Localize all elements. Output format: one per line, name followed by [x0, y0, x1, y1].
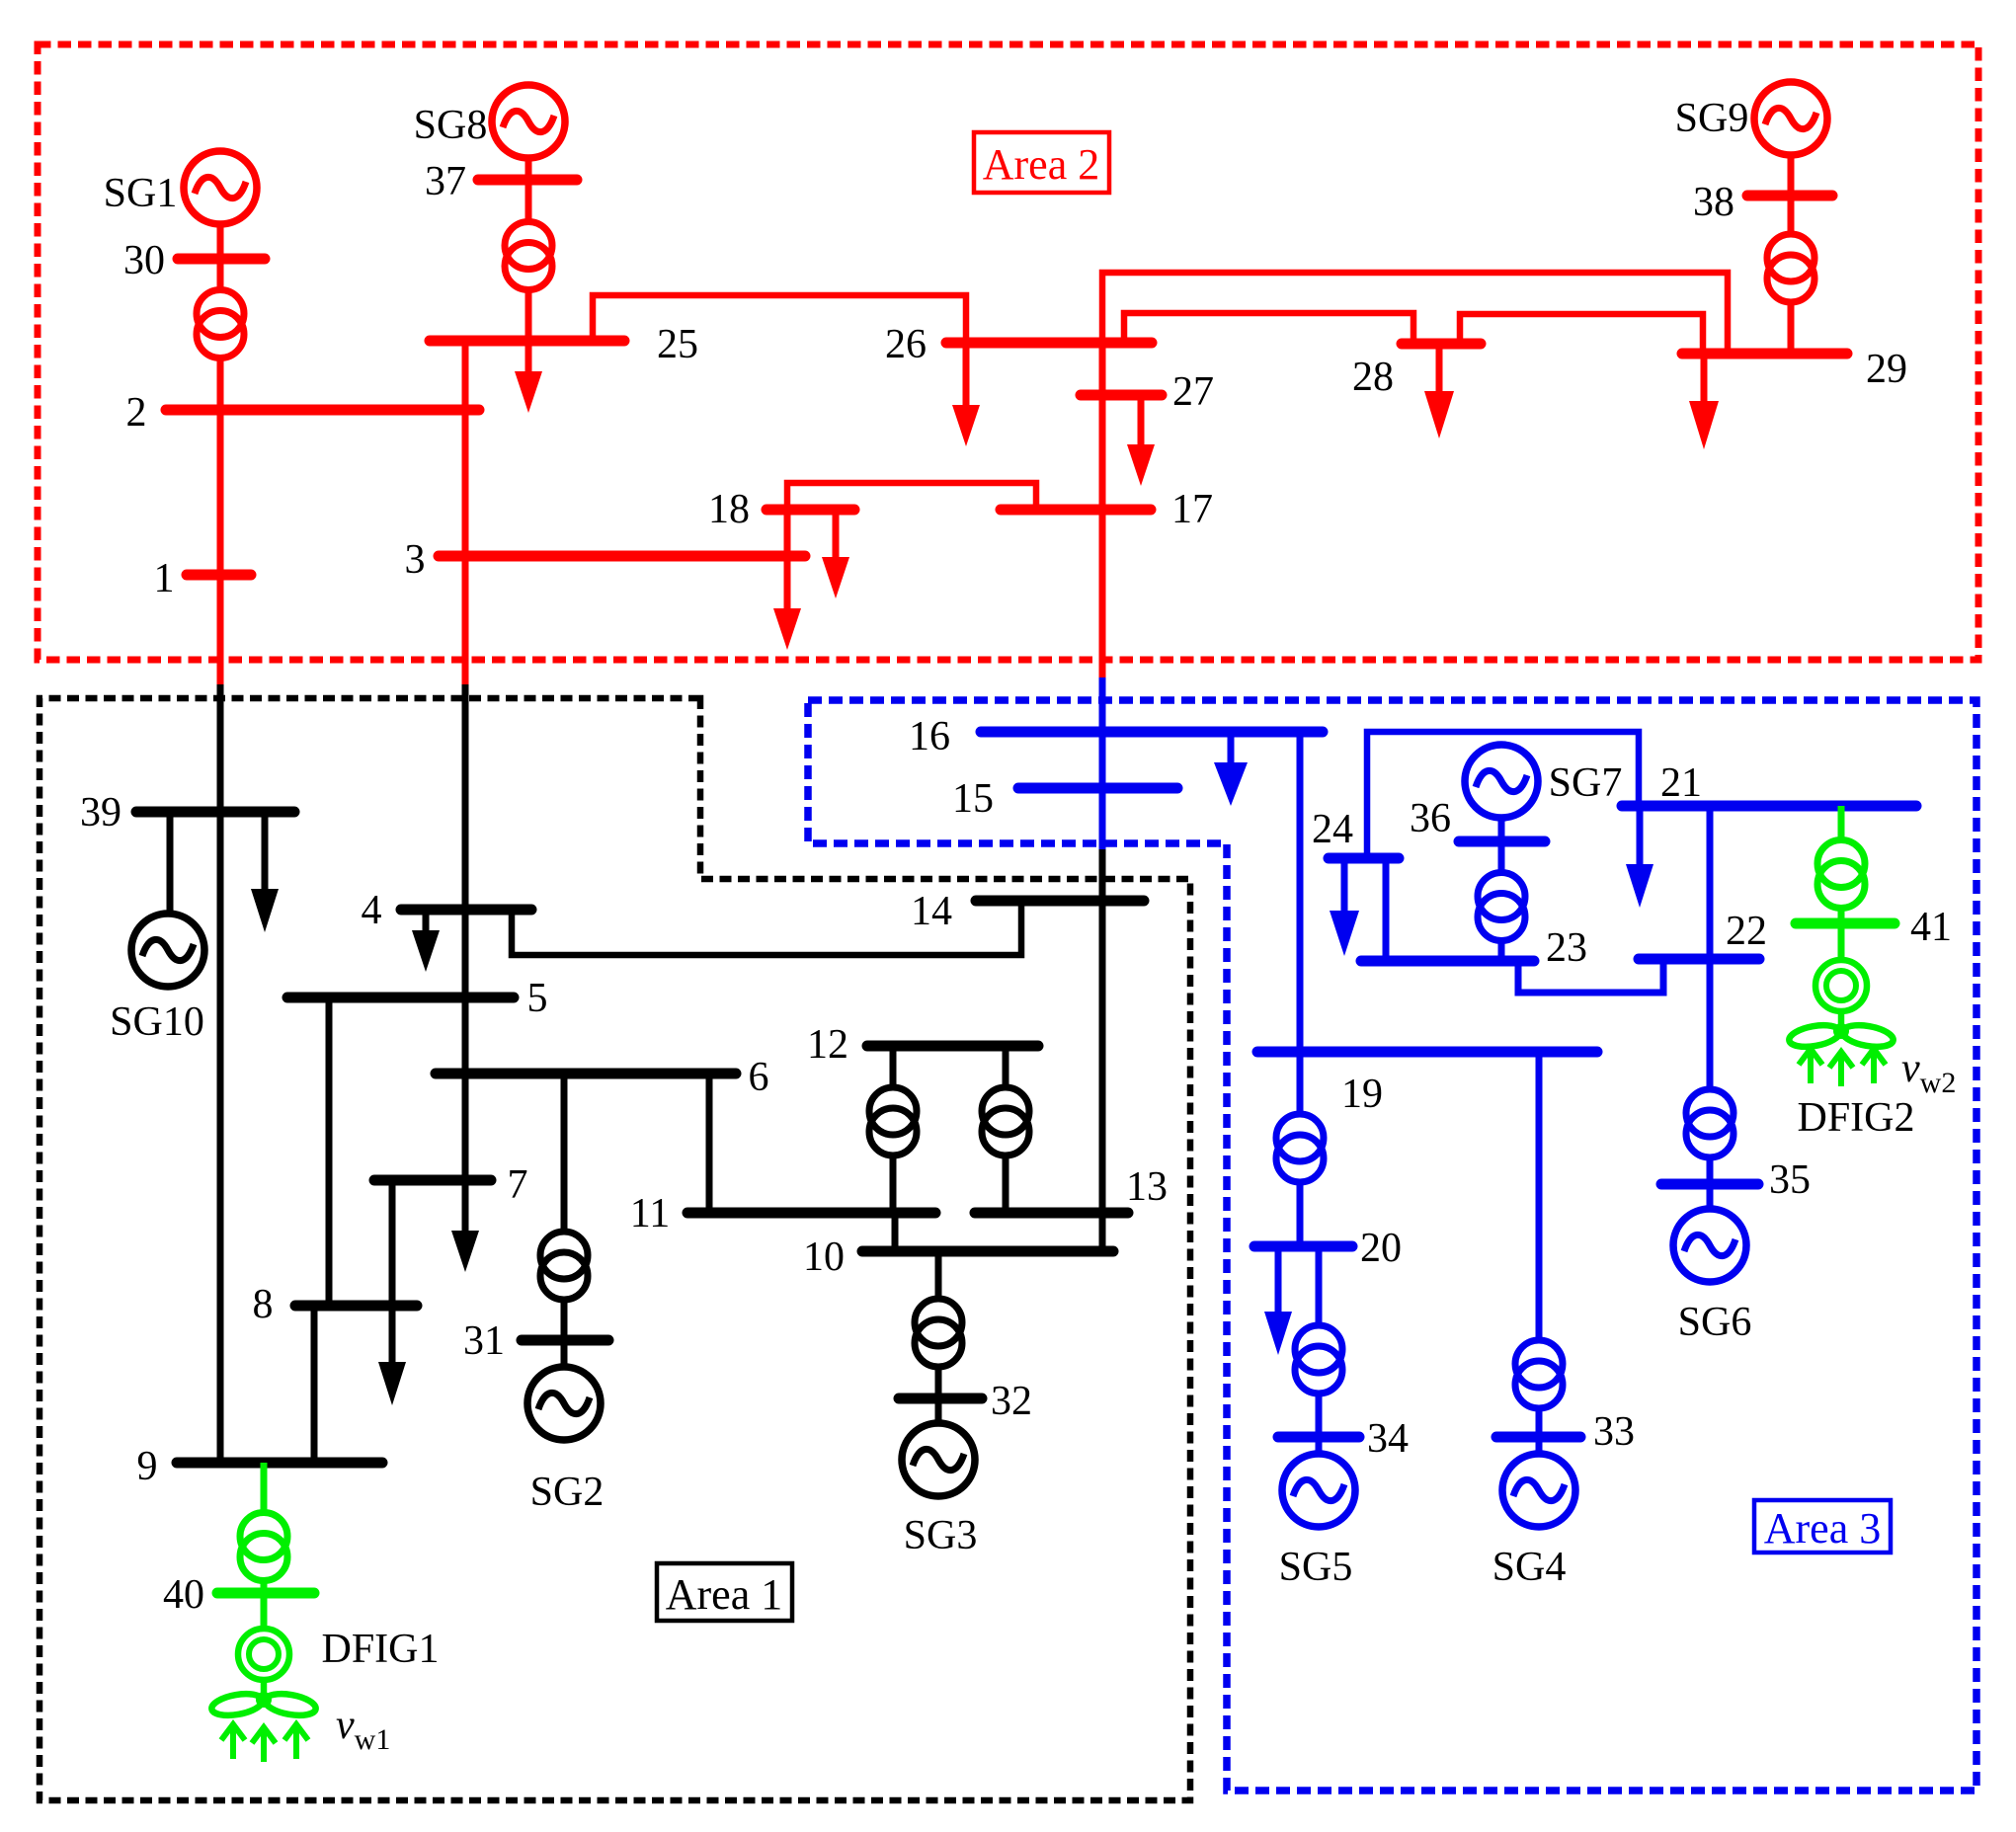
svg-text:34: 34	[1367, 1416, 1409, 1462]
transformer T-19-33 (SG4 step-up)	[1515, 1340, 1563, 1388]
svg-text:36: 36	[1410, 796, 1451, 841]
wire: line 16-19	[1297, 732, 1304, 1052]
wire: line 21-24	[1367, 732, 1639, 858]
wire: line 4-14	[512, 901, 1021, 955]
bus 36	[1459, 836, 1545, 847]
wire: line 17-16-15 blue portion of long tie	[1099, 677, 1106, 849]
svg-text:Area 3: Area 3	[1764, 1504, 1882, 1553]
load arrow at bus 16	[1228, 732, 1235, 764]
svg-text:14: 14	[911, 889, 952, 934]
svg-text:32: 32	[991, 1379, 1032, 1424]
svg-text:SG9: SG9	[1675, 96, 1749, 141]
wire: transformer to bus 13	[1003, 1155, 1009, 1213]
wire: bus 12 to transformer 12-11	[890, 1046, 897, 1087]
load arrow at bus 18	[833, 510, 840, 559]
transformer T-38-29 (SG9 step-up)	[1767, 234, 1814, 281]
svg-text:SG5: SG5	[1279, 1545, 1353, 1590]
svg-text:18: 18	[708, 487, 750, 532]
load arrow at bus 4	[423, 910, 430, 932]
wire: transformer to bus 33	[1536, 1408, 1543, 1437]
load arrow at bus 24	[1341, 858, 1348, 912]
svg-text:SG7: SG7	[1549, 760, 1623, 806]
bus 25	[430, 336, 624, 347]
wire: bus 19 to transformer 19-20	[1297, 1052, 1304, 1114]
svg-text:41: 41	[1910, 905, 1952, 950]
wire: transformer to bus 41	[1838, 909, 1845, 924]
svg-text:10: 10	[803, 1235, 845, 1280]
generator SG10	[131, 914, 204, 987]
bus 30	[178, 254, 265, 265]
wire: bus 33 lead to SG4	[1536, 1437, 1543, 1454]
bus 35	[1661, 1179, 1758, 1190]
wire: bus 34 lead to SG5	[1316, 1437, 1323, 1454]
load arrow at bus 26	[963, 343, 970, 407]
wire: line 17-18	[787, 483, 1036, 510]
bus 20	[1254, 1241, 1352, 1252]
generator SG5	[1282, 1454, 1355, 1527]
bus 39	[136, 807, 294, 818]
wire: bus 38 to transformer	[1788, 196, 1795, 234]
wind turbine blades DFIG1	[210, 1691, 265, 1719]
wire: transformer to bus 11	[890, 1155, 897, 1213]
transformer T-10-32 (SG3 step-up)	[915, 1299, 962, 1346]
generator SG6	[1673, 1209, 1746, 1282]
bus 22	[1639, 954, 1759, 965]
load arrow at bus 27	[1138, 395, 1145, 446]
wire: bus 12 to transformer 12-13	[1003, 1046, 1009, 1087]
wire: bus 21 to DFIG2 transformer	[1838, 806, 1845, 840]
wire: bus 32 lead to SG3	[935, 1398, 942, 1423]
bus 26	[946, 338, 1152, 349]
wire: bus 37 to transformer	[525, 180, 532, 222]
transformer T-21-41 (DFIG2)	[1817, 840, 1865, 888]
svg-text:1: 1	[154, 556, 175, 601]
svg-text:31: 31	[463, 1318, 505, 1364]
transformer T-6-31 (SG2 step-up)	[540, 1232, 588, 1279]
svg-text:5: 5	[527, 976, 548, 1021]
svg-text:38: 38	[1693, 180, 1734, 225]
svg-text:30: 30	[123, 238, 165, 283]
DFIG1 machine (double-ring generator)	[238, 1629, 289, 1680]
bus 16	[981, 727, 1323, 738]
bus 24	[1329, 853, 1399, 864]
load arrow at bus 3	[784, 556, 791, 610]
svg-text:3: 3	[405, 537, 426, 583]
wire: transformer to bus 29	[1788, 302, 1795, 354]
bus 9	[177, 1458, 382, 1469]
wire: lines 14-13-10 vertical (black part of long tie)	[1099, 849, 1106, 1251]
svg-text:20: 20	[1360, 1226, 1402, 1271]
svg-text:SG2: SG2	[530, 1470, 605, 1515]
svg-text:13: 13	[1126, 1164, 1168, 1210]
wire: transformer to bus 20	[1297, 1182, 1304, 1246]
wire: line 26-29 (upper long tie)	[1102, 273, 1728, 354]
load arrow at bus 29	[1701, 354, 1708, 403]
bus 2	[166, 405, 479, 416]
wire: SG7 lead to bus 36	[1498, 818, 1505, 841]
wire: line 24-23	[1383, 858, 1390, 961]
bus 11	[687, 1208, 935, 1219]
bus 12	[867, 1041, 1038, 1052]
transformer T-20-34 (SG5 step-up)	[1295, 1325, 1342, 1373]
svg-text:15: 15	[952, 776, 994, 822]
wind turbine blades DFIG2	[1788, 1022, 1842, 1051]
bus 18	[766, 505, 854, 516]
wire: bus 40 to DFIG1 machine	[261, 1593, 268, 1629]
bus 27	[1081, 390, 1162, 401]
wire: line 21-22	[1707, 806, 1714, 959]
wire: bus 20 to transformer 20-34	[1316, 1246, 1323, 1325]
svg-text:26: 26	[885, 322, 927, 367]
svg-text:23: 23	[1546, 925, 1587, 971]
load arrow at bus 25	[525, 341, 532, 373]
Area 2 label	[974, 132, 1109, 193]
wire: line 3-4-5-6-7 vertical (black part below border)	[462, 684, 469, 1180]
wire: line 23-22 U-connector	[1518, 959, 1663, 993]
wire: transformer to bus 34	[1316, 1394, 1323, 1437]
Area 1 label	[657, 1563, 792, 1621]
wire: bus 9 to DFIG1 transformer	[261, 1463, 268, 1513]
wire: line 28-29	[1460, 314, 1703, 354]
svg-text:22: 22	[1726, 909, 1767, 954]
wire: transformer to bus 25	[525, 290, 532, 342]
bus 5	[287, 993, 514, 1003]
svg-text:28: 28	[1352, 355, 1394, 400]
generator SG7	[1465, 745, 1538, 818]
svg-text:SG8: SG8	[414, 103, 488, 148]
svg-text:9: 9	[137, 1444, 158, 1489]
wire: bus 41 to DFIG2 machine	[1838, 923, 1845, 960]
bus 21	[1622, 801, 1916, 812]
svg-text:21: 21	[1660, 760, 1702, 806]
svg-text:25: 25	[657, 322, 698, 367]
wire: main vertical bus26-bus27-bus17 (lines 26-27, 27-17)	[1099, 343, 1106, 510]
transformer T-12-13	[982, 1087, 1029, 1135]
svg-text:2: 2	[126, 390, 147, 436]
wind arrows v_w2	[1799, 1049, 1822, 1083]
DFIG2 machine (double-ring generator)	[1815, 960, 1867, 1011]
bus 13	[975, 1208, 1128, 1219]
svg-text:DFIG2: DFIG2	[1797, 1095, 1914, 1141]
transformer T-9-40 (DFIG1)	[240, 1513, 287, 1560]
svg-text:27: 27	[1172, 369, 1214, 415]
svg-text:4: 4	[362, 888, 382, 933]
transformer T-36-23 (SG7 step-up)	[1478, 873, 1525, 920]
wire: bus 31 lead to SG2	[561, 1340, 568, 1367]
svg-text:SG6: SG6	[1678, 1300, 1752, 1345]
wind arrows v_w1	[221, 1724, 245, 1759]
transformer T-19-20	[1276, 1114, 1324, 1161]
wire: line 5-8	[326, 997, 333, 1306]
svg-text:SG1: SG1	[104, 171, 178, 216]
svg-text:SG4: SG4	[1492, 1545, 1567, 1590]
Area 2 dashed boundary box (red)	[38, 44, 1978, 660]
wire: line 7-8	[389, 1180, 396, 1306]
load arrow at bus 39	[262, 812, 269, 891]
bus 41	[1796, 918, 1895, 929]
wire: transformer to bus 23	[1498, 941, 1505, 962]
generator SG9	[1754, 82, 1827, 155]
wire: transformer to bus 31	[561, 1300, 568, 1340]
bus 15	[1018, 783, 1177, 794]
wire: SG1 lead to bus 30	[217, 224, 224, 259]
generator SG2	[527, 1367, 601, 1440]
wire: bus 2 down through bus 1 to area border (line 1-2)	[217, 410, 224, 684]
wire: bus 10 to SG3 transformer	[935, 1251, 942, 1299]
svg-text:39: 39	[80, 790, 121, 836]
bus 19	[1257, 1047, 1597, 1058]
bus 32	[899, 1394, 982, 1404]
wire: transformer to bus 32	[935, 1367, 942, 1398]
wire: machine to turbine hub	[1838, 1011, 1845, 1028]
svg-text:Area 2: Area 2	[983, 140, 1100, 189]
svg-text:37: 37	[425, 159, 466, 204]
transformer T-37-25 (SG8 step-up)	[505, 222, 552, 270]
wire: line 1-39-9 vertical (black part below border)	[217, 684, 224, 1463]
svg-text:SG3: SG3	[904, 1513, 978, 1558]
svg-text:40: 40	[163, 1572, 204, 1618]
wire: line 6-11	[706, 1074, 713, 1213]
wire: line 17-16 red portion crossing area border	[1099, 510, 1106, 677]
bus 38	[1747, 191, 1832, 201]
bus 34	[1278, 1432, 1359, 1443]
bus 28	[1402, 339, 1481, 350]
bus 10	[862, 1246, 1113, 1257]
wire: bus 30 to transformer T1-30	[217, 259, 224, 290]
bus 31	[522, 1335, 608, 1346]
wire: SG8 lead to bus 37	[525, 158, 532, 180]
wire: bus 35 lead to SG6	[1707, 1184, 1714, 1209]
load arrow at bus 7	[462, 1180, 469, 1233]
transformer T-22-35 (SG6 step-up)	[1686, 1089, 1734, 1137]
wire: bus 25 down through bus 2 to bus 3 (lines 2-25, 2-3)	[462, 341, 469, 684]
wire: line 11-10	[892, 1213, 899, 1251]
wire: bus 19 to transformer 19-33 (SG4 column)	[1536, 1052, 1543, 1340]
bus 29	[1682, 349, 1847, 359]
svg-text:17: 17	[1171, 487, 1213, 532]
wire: bus 22 to transformer 22-35 (SG6 column)	[1707, 959, 1714, 1089]
svg-text:12: 12	[807, 1022, 848, 1068]
svg-text:33: 33	[1593, 1409, 1635, 1455]
bus 14	[976, 896, 1144, 907]
generator SG3	[902, 1423, 975, 1496]
svg-text:Area 1: Area 1	[666, 1570, 783, 1619]
wire: line 25-26	[593, 295, 966, 343]
load arrow at bus 28	[1436, 344, 1443, 393]
svg-text:19: 19	[1341, 1072, 1383, 1117]
bus 23	[1361, 956, 1534, 967]
transformer T2-30 (SG1 step-up)	[197, 290, 244, 338]
bus 8	[295, 1301, 417, 1312]
wire: bus 39 lead to SG10	[167, 812, 174, 914]
load arrow at bus 21	[1637, 806, 1644, 866]
wire: SG9 lead to bus 38	[1788, 155, 1795, 196]
svg-text:35: 35	[1769, 1157, 1811, 1203]
svg-text:6: 6	[749, 1055, 769, 1100]
svg-text:24: 24	[1312, 807, 1353, 852]
Area 1 dashed boundary (black)	[40, 698, 1190, 1800]
svg-text:8: 8	[253, 1282, 274, 1327]
wire: transformer to bus 40	[261, 1581, 268, 1594]
generator SG8	[492, 85, 565, 158]
svg-text:29: 29	[1866, 347, 1907, 392]
wire: machine to turbine hub	[261, 1680, 268, 1697]
wire: transformer to bus 2	[217, 358, 224, 411]
svg-text:SG10: SG10	[110, 999, 204, 1045]
wire: bus 36 to transformer	[1498, 841, 1505, 873]
wire: line 26-28	[1124, 313, 1413, 344]
wire: bus 6 to SG2 transformer	[561, 1074, 568, 1232]
bus 40	[217, 1588, 314, 1599]
bus 6	[436, 1069, 736, 1079]
svg-text:DFIG1: DFIG1	[321, 1627, 439, 1672]
bus 33	[1496, 1432, 1580, 1443]
svg-text:16: 16	[909, 714, 950, 759]
wire: transformer to bus 35	[1707, 1157, 1714, 1184]
wire: line 3-18	[784, 510, 791, 556]
bus 7	[374, 1175, 491, 1186]
svg-text:11: 11	[630, 1191, 670, 1236]
load arrow at bus 8	[389, 1306, 396, 1364]
load arrow at bus 20	[1275, 1246, 1282, 1314]
wire: line 8-9	[311, 1306, 318, 1463]
bus 4	[401, 905, 531, 916]
bus 1	[187, 570, 251, 581]
Area 3 dashed boundary (blue)	[808, 700, 1976, 1791]
svg-text:7: 7	[508, 1162, 528, 1208]
Area 3 label	[1754, 1500, 1891, 1553]
generator SG1	[184, 151, 257, 224]
bus 17	[1001, 505, 1151, 516]
transformer T-12-11	[869, 1087, 917, 1135]
bus 37	[478, 175, 577, 186]
bus 3	[439, 551, 805, 562]
generator SG4	[1502, 1454, 1575, 1527]
